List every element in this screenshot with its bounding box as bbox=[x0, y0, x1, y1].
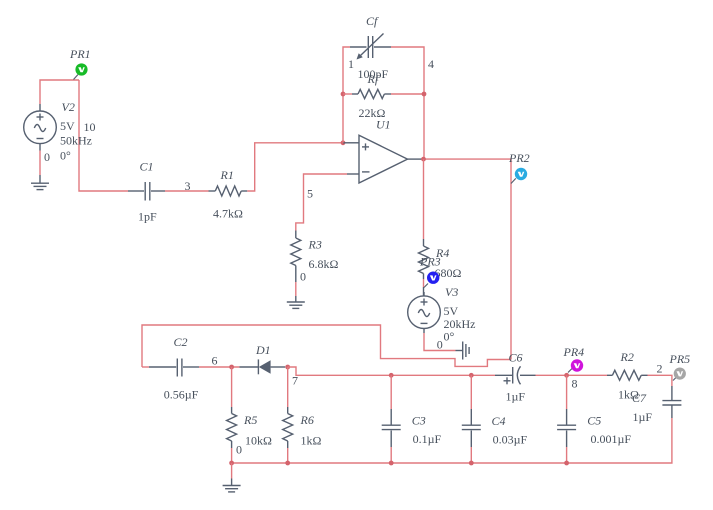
probe PR2 bbox=[508, 151, 530, 184]
svg-text:0.1µF: 0.1µF bbox=[413, 432, 442, 446]
wire R6 branch bbox=[287, 367, 289, 407]
wire R1 to op-amp + input bbox=[247, 143, 343, 191]
svg-text:10kΩ: 10kΩ bbox=[245, 434, 272, 448]
variable capacitor Cf bbox=[350, 14, 391, 81]
svg-text:PR1: PR1 bbox=[69, 47, 91, 61]
svg-text:1µF: 1µF bbox=[506, 390, 526, 404]
svg-text:R6: R6 bbox=[300, 413, 314, 427]
wire V2 bottom to ground bbox=[39, 151, 41, 176]
svg-text:6.8kΩ: 6.8kΩ bbox=[309, 257, 339, 271]
junction dots bottom rail bbox=[229, 461, 234, 466]
svg-text:0: 0 bbox=[44, 150, 50, 164]
svg-text:PR5: PR5 bbox=[669, 352, 691, 366]
svg-text:D1: D1 bbox=[255, 343, 271, 357]
svg-text:0°: 0° bbox=[444, 330, 455, 344]
wire - input to R3 bbox=[296, 174, 347, 231]
resistor R4 bbox=[419, 239, 462, 280]
resistor Rf bbox=[343, 72, 424, 120]
AC source V3 bbox=[408, 285, 476, 344]
junction dot node 6 bbox=[229, 365, 234, 370]
svg-text:Rf: Rf bbox=[367, 72, 380, 86]
wire C1 to R1 bbox=[165, 190, 209, 192]
AC source V2 bbox=[24, 100, 92, 163]
svg-text:R2: R2 bbox=[620, 350, 634, 364]
wire from PR1 corner down to C1 row bbox=[79, 80, 128, 191]
wire R3 to ground bbox=[295, 282, 297, 296]
wire C6 to node 8 to R2 bbox=[536, 374, 608, 376]
op-amp U1 bbox=[343, 118, 423, 183]
wire R4 to V3 bbox=[423, 279, 425, 287]
wire node7 step to bottom mid rail bbox=[288, 367, 495, 375]
junction dot node 7 left bbox=[285, 365, 290, 370]
ground (bottom) bbox=[223, 479, 241, 492]
svg-text:3: 3 bbox=[185, 179, 191, 193]
svg-text:0: 0 bbox=[437, 338, 443, 352]
junction dot Rf right bbox=[422, 92, 427, 97]
svg-text:C5: C5 bbox=[587, 414, 601, 428]
capacitor C1 bbox=[128, 160, 165, 224]
resistor R3 bbox=[291, 231, 339, 283]
wire feedback right rail bbox=[391, 47, 424, 159]
wire C7 down and bottom rail bbox=[232, 418, 672, 463]
junction dot Rf left bbox=[341, 92, 346, 97]
wire V3 bottom to rotated ground bbox=[424, 333, 456, 351]
junction dot output bbox=[421, 157, 426, 162]
capacitor C2 bbox=[149, 335, 199, 402]
wire C2 to node 6 bbox=[199, 366, 240, 368]
capacitor C5 bbox=[557, 375, 631, 463]
svg-text:R3: R3 bbox=[308, 238, 322, 252]
svg-text:4.7kΩ: 4.7kΩ bbox=[213, 207, 243, 221]
svg-text:V3: V3 bbox=[445, 285, 458, 299]
svg-text:50kHz: 50kHz bbox=[60, 134, 92, 148]
svg-text:1: 1 bbox=[348, 57, 354, 71]
capacitor C4 bbox=[462, 375, 528, 463]
svg-text:5V: 5V bbox=[444, 304, 459, 318]
svg-text:1pF: 1pF bbox=[138, 210, 157, 224]
svg-text:5V: 5V bbox=[60, 119, 75, 133]
svg-text:6: 6 bbox=[212, 353, 218, 367]
svg-text:5: 5 bbox=[307, 187, 313, 201]
svg-text:C7: C7 bbox=[632, 391, 647, 405]
wire V2 top to corner bbox=[40, 80, 79, 104]
svg-text:PR2: PR2 bbox=[508, 151, 530, 165]
resistor R6 bbox=[283, 407, 322, 448]
wire R5 branch bbox=[231, 367, 233, 407]
probe PR1 bbox=[69, 47, 91, 80]
svg-text:4: 4 bbox=[428, 57, 434, 71]
junction dot node 8 bbox=[564, 373, 569, 378]
svg-text:PR3: PR3 bbox=[419, 255, 441, 269]
junction dots mid rail C3 C4 bbox=[389, 373, 394, 378]
capacitor C7 bbox=[632, 386, 681, 424]
svg-text:1kΩ: 1kΩ bbox=[301, 434, 322, 448]
wire R2 to C7 corner bbox=[657, 375, 672, 386]
wire link from C2 up over to output node (with jog) bbox=[142, 325, 511, 367]
svg-text:22kΩ: 22kΩ bbox=[359, 106, 386, 120]
probe PR3 bbox=[419, 255, 441, 288]
svg-text:C6: C6 bbox=[509, 351, 523, 365]
svg-text:0: 0 bbox=[236, 443, 242, 457]
ground (V2) bbox=[31, 175, 49, 190]
svg-text:C2: C2 bbox=[174, 335, 188, 349]
svg-text:0.03µF: 0.03µF bbox=[493, 432, 528, 446]
ground (V3, rotated right) bbox=[456, 342, 470, 360]
svg-text:7: 7 bbox=[292, 374, 298, 388]
resistor R5 bbox=[227, 407, 272, 448]
svg-text:R1: R1 bbox=[220, 168, 234, 182]
svg-text:PR4: PR4 bbox=[563, 345, 585, 359]
wire output node down to R4 bbox=[423, 159, 425, 239]
svg-text:0.56µF: 0.56µF bbox=[164, 388, 199, 402]
ground (R3) bbox=[287, 296, 305, 308]
svg-text:C3: C3 bbox=[412, 414, 426, 428]
wire feedback left rail bbox=[343, 47, 350, 143]
svg-text:0°: 0° bbox=[60, 149, 71, 163]
svg-text:2: 2 bbox=[657, 362, 663, 376]
diode D1 bbox=[240, 343, 286, 375]
node junction at + input bbox=[341, 140, 346, 145]
svg-text:R5: R5 bbox=[243, 413, 257, 427]
svg-text:10: 10 bbox=[84, 120, 96, 134]
svg-text:0.001µF: 0.001µF bbox=[591, 432, 632, 446]
svg-text:Cf: Cf bbox=[366, 14, 379, 28]
probe PR5 bbox=[669, 352, 691, 381]
wire op-amp output to PR2 corner and down bbox=[423, 159, 511, 359]
capacitor C6 (polarized) bbox=[495, 351, 536, 404]
svg-text:1µF: 1µF bbox=[633, 410, 653, 424]
svg-text:C4: C4 bbox=[492, 414, 506, 428]
probe PR4 bbox=[563, 345, 585, 373]
wire C2 left stub bbox=[142, 366, 149, 368]
wire R5 to bottom rail bbox=[231, 448, 233, 463]
capacitor C3 bbox=[382, 375, 442, 463]
svg-text:0: 0 bbox=[300, 270, 306, 284]
resistor R1 bbox=[209, 168, 248, 221]
wire bottom rail to ground bbox=[231, 463, 233, 479]
svg-text:8: 8 bbox=[572, 377, 578, 391]
svg-text:C1: C1 bbox=[140, 160, 154, 174]
svg-text:V2: V2 bbox=[62, 100, 75, 114]
wire R6 to bottom rail bbox=[287, 448, 289, 463]
resistor R2 bbox=[607, 350, 657, 402]
